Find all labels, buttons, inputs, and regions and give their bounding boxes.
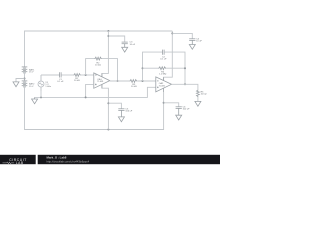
wire feedback up [86,59,95,75]
node C3 branch junction [107,35,109,37]
node C5 branch junction [107,102,109,104]
wire C5 branch [108,103,121,108]
ground (signal) [32,97,38,103]
node R4 right [184,67,186,69]
wire R3 to OA2 minus [137,80,156,82]
svg-text:http://circuitlab.com/c/xu443l: http://circuitlab.com/c/xu443ly6ppc4 [47,160,90,164]
svg-text:0.1 uF: 0.1 uF [57,81,64,83]
capacitor C1 [60,72,62,77]
svg-text:100 uF: 100 uF [183,109,190,111]
wire R5 to ground [197,97,199,101]
wire battery mid [24,73,26,81]
ground wire common [35,87,156,97]
node battery mid junction [24,78,26,80]
node feedback to output [117,80,119,82]
node OA1 plus drop [85,96,87,98]
svg-text:TL081: TL081 [159,85,166,87]
wire OA2 V+ drop [164,31,173,81]
svg-text:100 uF: 100 uF [125,111,132,113]
op-amp OA2 [156,77,172,92]
svg-text:Mark_O : Lab8: Mark_O : Lab8 [47,156,67,160]
ground (C4) [189,45,195,50]
resistor R1 [73,74,80,77]
capacitor C3 [122,42,128,47]
ground (C6) [176,115,182,120]
svg-text:10 kΩ: 10 kΩ [74,80,80,82]
svg-text:1 kHz: 1 kHz [45,86,51,88]
wire OA2 output [172,84,198,89]
node C4 branch junction [171,32,173,34]
wire OA1 output [110,80,130,82]
svg-text:15 V: 15 V [29,72,34,74]
node OA2 feedback tap [142,80,144,82]
wire OA1 V+ drop [102,31,109,77]
watermark url box [38,155,220,164]
svg-text:LAB: LAB [16,161,24,165]
resistor R2 [94,57,101,60]
wire top rail +15V [25,31,173,67]
battery BAT2 [22,81,28,87]
node OA1 V+ junction on top rail [107,30,109,32]
svg-text:10 kΩ: 10 kΩ [131,86,137,88]
ground (battery mid) [13,82,19,87]
node feedback tap [85,74,87,76]
node C6 branch junction [163,102,165,104]
ground (R5) [195,101,201,106]
node V1 bottom [40,96,42,98]
source V1 [38,75,44,91]
svg-text:10 kΩ: 10 kΩ [201,94,207,96]
wire OA1 V- drop [102,85,109,130]
capacitor C6 [176,107,182,115]
svg-text:TL081: TL081 [97,81,104,83]
op-amp OA1 [94,73,110,88]
wire C6 branch [164,103,179,107]
wire R4 left [143,67,159,69]
svg-text:10 kΩ: 10 kΩ [95,64,101,66]
ground (C5) [118,117,124,122]
wire R4 right [166,67,185,69]
battery BAT1 [22,67,28,73]
ground (C3) [122,47,128,52]
capacitor C2 [163,50,165,55]
wire mid ground branch [16,79,25,82]
wire R2 to output [102,59,118,81]
wire left rail down [25,87,164,130]
svg-text:15 V: 15 V [29,86,34,88]
svg-text:10 uF: 10 uF [196,41,202,43]
capacitor C4 [189,39,195,45]
node feedback meets output [184,83,186,85]
resistor R3 [129,80,137,83]
capacitor C5 [118,109,124,117]
svg-text:0.1 uF: 0.1 uF [160,59,167,61]
node OA1 V- on bottom rail [107,129,109,131]
wire OA1 plus input [86,84,94,97]
wire R1 to OA1 minus [81,74,94,76]
watermark logo box [0,155,36,165]
resistor R4 [158,67,166,70]
wire V1 top to C1 [41,74,59,76]
wire OA2 feedback left up [143,52,163,81]
svg-text:1.0 MΩ: 1.0 MΩ [159,74,166,76]
svg-text:10 uF: 10 uF [130,44,136,46]
wire C2 right [164,52,185,84]
wire C1 to R1 [61,74,73,76]
wire C4 branch [172,33,192,38]
resistor R5 [197,90,200,97]
node R4 left [142,67,144,69]
wire C3 branch [108,36,124,42]
